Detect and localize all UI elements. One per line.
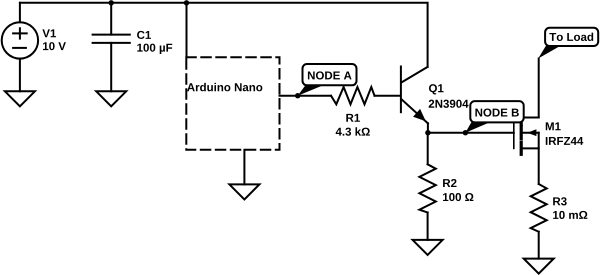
R1 value label bbox=[336, 127, 370, 135]
wire top rail from V1 to Q1 collector bbox=[20, 3, 428, 67]
R3 name label bbox=[553, 197, 567, 205]
NODE A callout pointer bbox=[298, 85, 325, 96]
wire V1 bottom lead bbox=[19, 59, 21, 92]
junction node rail-Arduino bbox=[184, 0, 189, 5]
MOSFET M1 source stub bbox=[521, 147, 539, 149]
V1 value label bbox=[43, 42, 66, 50]
MOSFET M1 gate bar bbox=[513, 113, 515, 148]
node A junction dot bbox=[295, 93, 300, 98]
NODE A callout box bbox=[303, 64, 357, 85]
wire MOSFET source down to R3 bbox=[538, 133, 540, 184]
ground below R2 bbox=[413, 240, 443, 255]
voltage source V1 bbox=[2, 22, 38, 58]
MOSFET M1 drain stub bbox=[521, 117, 539, 119]
NODE B callout box bbox=[470, 101, 523, 122]
ground below C1 bbox=[96, 91, 126, 106]
wire emitter node down to R2 bbox=[427, 133, 429, 165]
ground below V1 bbox=[5, 91, 35, 106]
C1 value label bbox=[137, 44, 172, 54]
wire MOSFET drain up to To Load bbox=[538, 59, 540, 118]
MOSFET M1 body stub bbox=[523, 132, 539, 134]
wire C1 top lead bbox=[110, 3, 112, 35]
Q1 emitter arrow bbox=[413, 109, 426, 121]
R3 value label bbox=[553, 211, 587, 219]
wire C1 bottom lead bbox=[110, 43, 112, 91]
junction node rail-C1 bbox=[109, 0, 114, 5]
MOSFET M1 channel top segment bbox=[520, 110, 523, 125]
NODE B label bbox=[475, 108, 518, 116]
MOSFET M1 channel middle segment bbox=[520, 127, 523, 139]
NODE B callout pointer bbox=[465, 122, 491, 133]
resistor R1 bbox=[331, 87, 375, 104]
wire R3 to ground bbox=[538, 232, 540, 259]
V1 name label bbox=[42, 29, 56, 37]
M1 name label bbox=[546, 122, 561, 130]
C1 name label bbox=[137, 31, 151, 39]
capacitor C1 bbox=[93, 35, 130, 43]
NODE A label bbox=[308, 71, 352, 79]
ground below R3 bbox=[524, 259, 554, 274]
R2 value label bbox=[443, 193, 473, 201]
To Load callout pointer bbox=[538, 45, 562, 59]
Q1 name label bbox=[429, 84, 444, 94]
wire Q1 emitter down to node bbox=[427, 123, 429, 132]
wire emitter node to MOSFET gate bbox=[428, 132, 514, 134]
wire Arduino output to R1 bbox=[280, 95, 332, 97]
wire V1 top lead bbox=[19, 3, 21, 22]
Arduino Nano label bbox=[187, 83, 262, 91]
transistor Q1 bbox=[401, 67, 428, 124]
wire R2 to ground bbox=[427, 213, 429, 240]
emitter junction dot bbox=[425, 130, 430, 135]
wire Arduino ground lead bbox=[243, 150, 245, 185]
To Load callout box bbox=[545, 28, 598, 46]
wire from rail down to Arduino box bbox=[186, 3, 188, 57]
resistor R3 bbox=[531, 184, 547, 232]
ground below Arduino bbox=[229, 184, 259, 199]
R2 name label bbox=[443, 179, 456, 187]
resistor R2 bbox=[419, 164, 435, 212]
Arduino Nano dashed block bbox=[186, 57, 279, 150]
wire R1 to Q1 base bbox=[375, 95, 401, 97]
R1 name label bbox=[346, 114, 360, 122]
Q1 value label bbox=[429, 100, 469, 108]
node B junction dot bbox=[463, 130, 468, 135]
To Load label bbox=[549, 33, 593, 41]
M1 value label bbox=[546, 137, 584, 145]
MOSFET body arrow bbox=[527, 129, 536, 136]
MOSFET M1 channel bottom segment bbox=[520, 143, 523, 155]
